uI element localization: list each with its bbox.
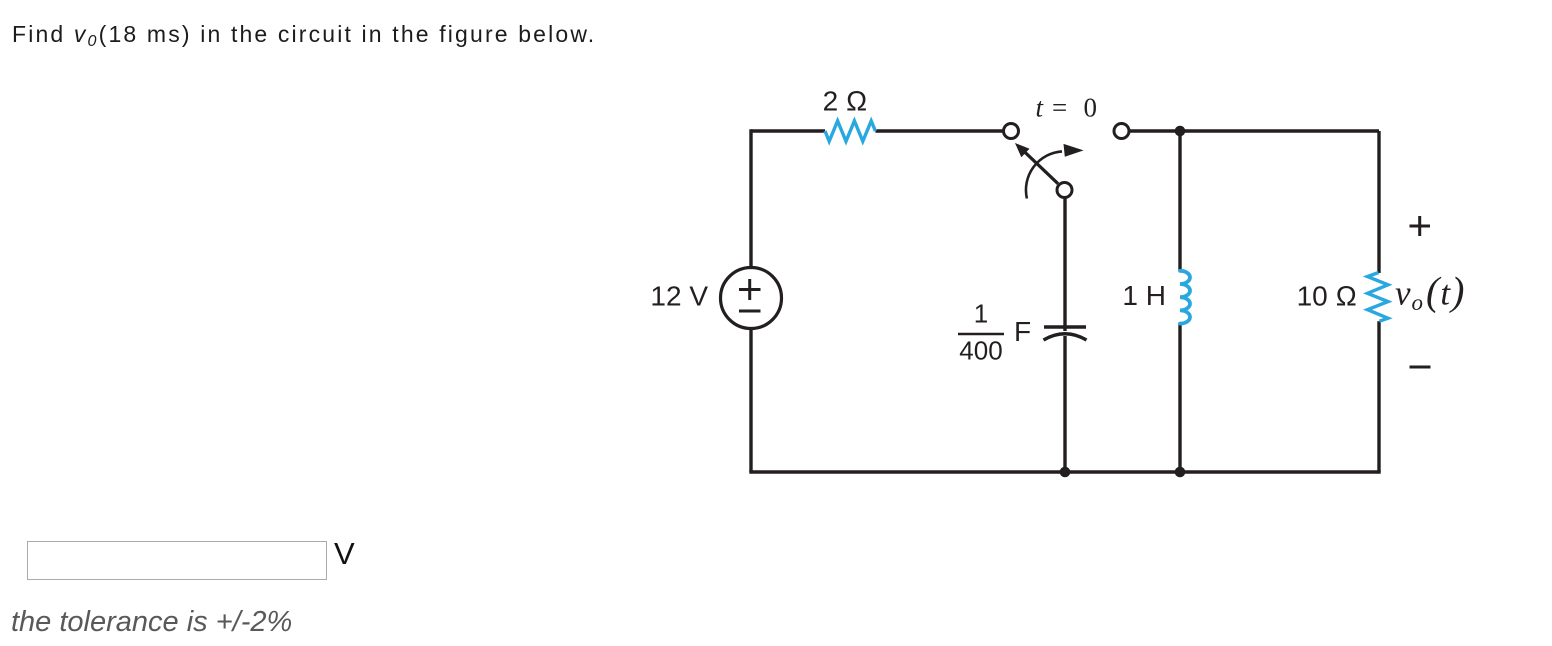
switch blade	[1025, 152, 1059, 184]
problem statement text	[12, 21, 596, 48]
junction node bottom-right	[1175, 467, 1186, 478]
capacitor value fraction bar	[958, 333, 1004, 335]
resistor R2 10ohm vertical zigzag	[1368, 273, 1389, 322]
switch motion arrowhead	[1064, 144, 1084, 157]
wire inductor branch upper	[1178, 131, 1181, 271]
svg-text:1 H: 1 H	[1122, 280, 1166, 311]
voltage source V1 circle	[721, 268, 782, 329]
wire right rail lower	[1377, 321, 1380, 472]
junction node top	[1175, 126, 1186, 137]
wire capacitor to bottom	[1063, 336, 1066, 472]
inductor L1 coil	[1180, 271, 1190, 324]
voltage source plus sign	[739, 279, 761, 300]
svg-text:2 Ω: 2 Ω	[823, 86, 868, 117]
wire bottom	[749, 470, 1380, 473]
answer unit label V	[334, 536, 355, 572]
answer input box	[27, 541, 327, 580]
wire right-terminal to top-right corner	[1130, 129, 1380, 132]
capacitor C1 curved bottom plate	[1044, 334, 1087, 340]
svg-text:1: 1	[974, 299, 988, 329]
switch pole terminal	[1057, 183, 1072, 198]
resistor R1 2ohm zigzag	[825, 121, 875, 141]
switch left terminal	[1004, 124, 1019, 139]
voltage source minus sign	[739, 310, 761, 313]
svg-text:12 V: 12 V	[650, 281, 708, 312]
wire left rail upper	[749, 129, 752, 267]
svg-text:10 Ω: 10 Ω	[1297, 281, 1357, 312]
wire resistor-to-switch	[875, 129, 1002, 132]
tolerance note	[11, 606, 292, 639]
junction node bottom-left	[1060, 467, 1071, 478]
switch blade arrowhead	[1015, 143, 1030, 157]
wire inductor branch lower	[1178, 324, 1181, 473]
capacitor C1 top plate	[1044, 325, 1086, 328]
polarity plus sign	[1410, 216, 1431, 236]
svg-text:t=0: t=0	[1036, 93, 1098, 123]
switch right terminal	[1114, 124, 1129, 139]
wire switch-pole to capacitor	[1063, 198, 1066, 331]
wire right rail upper	[1377, 131, 1380, 273]
svg-text:F: F	[1014, 316, 1031, 347]
wire left rail lower	[749, 329, 752, 473]
svg-text:vo(t): vo(t)	[1395, 269, 1465, 316]
wire top-left segment	[751, 129, 825, 132]
svg-text:400: 400	[959, 336, 1002, 366]
switch motion arc	[1026, 151, 1062, 198]
polarity minus sign	[1410, 366, 1431, 369]
